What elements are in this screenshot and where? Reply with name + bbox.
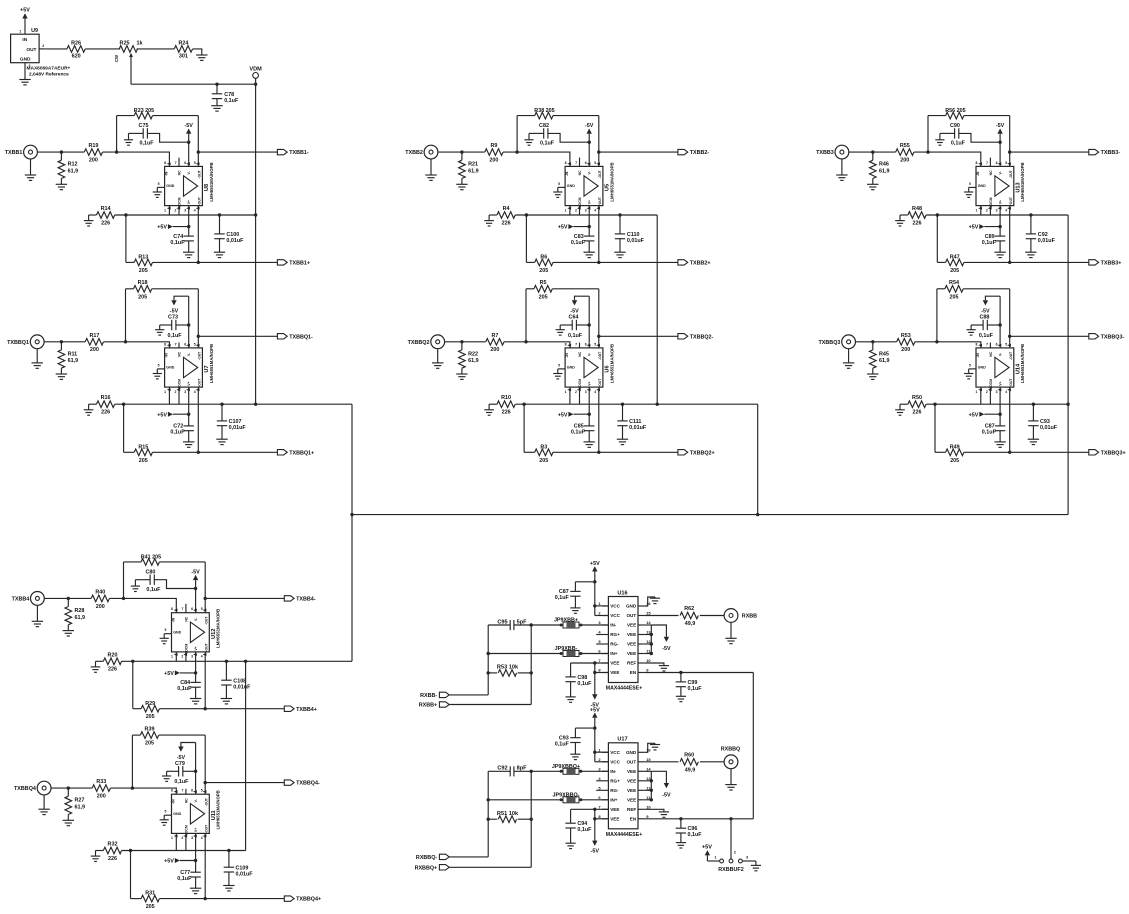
svg-text:VEE: VEE [627, 651, 636, 656]
svg-text:C90: C90 [950, 123, 960, 129]
capacitor C99 0,1uF at EN [676, 673, 703, 697]
node C110 tap [618, 213, 621, 216]
jumper JP9XBBQ- [553, 792, 609, 802]
capacitor C92 8pF series [488, 766, 561, 777]
svg-text:TXBB3-: TXBB3- [1101, 150, 1121, 156]
svg-text:5: 5 [201, 789, 203, 793]
svg-text:6: 6 [996, 161, 998, 165]
node VEE net of U17 [593, 808, 596, 811]
svg-text:GND: GND [626, 604, 637, 609]
svg-text:+5V: +5V [590, 561, 600, 567]
resistor R14 226 gain [89, 206, 115, 226]
svg-text:IN-: IN- [610, 623, 617, 628]
wire EN line of U17 [645, 818, 754, 820]
svg-text:R23 205: R23 205 [134, 108, 154, 114]
svg-text:R6: R6 [540, 255, 547, 261]
capacitor C90 0,1uF [940, 123, 1000, 147]
node +5V junction [187, 225, 190, 228]
svg-text:0,1uF: 0,1uF [982, 430, 997, 436]
svg-text:205: 205 [950, 458, 959, 464]
svg-text:NC: NC [578, 351, 582, 356]
wire V- into amplifier [999, 142, 1001, 166]
svg-text:2: 2 [181, 836, 183, 840]
svg-text:RXBBQ-: RXBBQ- [416, 855, 437, 861]
node C79 to V- [194, 770, 197, 773]
svg-text:0,1uF: 0,1uF [571, 430, 586, 436]
wire to amplifier -IN [110, 598, 177, 612]
wire input to termination node [44, 341, 85, 343]
node R53 right [530, 671, 533, 674]
wire rail A lower [487, 771, 489, 857]
svg-text:-IN: -IN [165, 171, 169, 176]
svg-text:2: 2 [181, 655, 183, 659]
svg-text:TXBBQ3+: TXBBQ3+ [1101, 450, 1126, 456]
svg-text:VDM: VDM [249, 66, 262, 72]
svg-text:0,01uF: 0,01uF [233, 685, 251, 691]
node C108 tap [225, 660, 228, 663]
svg-text:RG+: RG+ [610, 779, 620, 784]
svg-text:5: 5 [194, 161, 196, 165]
resistor R3 205 lower feedback [524, 404, 553, 464]
svg-text:14: 14 [646, 620, 651, 625]
ground under C111 [617, 438, 628, 440]
wire V+ supply [195, 652, 197, 683]
output connector TXBBQ1+ [277, 450, 314, 457]
svg-text:6: 6 [184, 342, 186, 346]
svg-text:-5V: -5V [185, 123, 194, 129]
resistor R53 200 series input [897, 333, 915, 353]
resistor R19 200 series input [84, 143, 102, 163]
node VOCM-feedback junction [522, 403, 525, 406]
ground under C92 [1025, 251, 1036, 253]
node rail A at lower IN+ line [487, 798, 490, 801]
ground at R50 [895, 409, 905, 411]
input connector J-TXBBQ3 [819, 335, 856, 349]
svg-text:GND: GND [173, 631, 181, 635]
svg-text:-IN: -IN [172, 799, 176, 804]
wire VEE pin8 and -5V flag of U16 [591, 663, 609, 708]
svg-text:R21: R21 [468, 162, 478, 168]
ground under C107 [216, 438, 227, 440]
resistor R33 200 series input [92, 779, 110, 799]
wire output TXBBQ1- line [198, 335, 277, 337]
svg-text:5: 5 [558, 363, 560, 367]
wire VOCM line [115, 403, 352, 405]
svg-text:+5V: +5V [558, 412, 568, 418]
capacitor C100 0,01uF [214, 215, 244, 252]
svg-text:8pF: 8pF [517, 766, 528, 772]
svg-text:0,1uF: 0,1uF [979, 333, 994, 339]
output connector TXBBQ2- [678, 334, 714, 341]
svg-text:0,1uF: 0,1uF [555, 595, 570, 601]
op-amp U12 TXBB4 driver [160, 604, 221, 659]
power -5V flag [981, 296, 1000, 314]
input connector J-TXBBQ1 [7, 335, 44, 349]
svg-text:U16: U16 [617, 590, 627, 596]
svg-text:5: 5 [201, 607, 203, 611]
svg-text:205: 205 [539, 458, 548, 464]
svg-text:IN-: IN- [610, 769, 617, 774]
svg-text:5: 5 [158, 182, 160, 186]
svg-text:RG-: RG- [610, 642, 619, 647]
power -5V flag [185, 123, 194, 142]
svg-text:3: 3 [996, 390, 998, 394]
svg-text:-IN: -IN [172, 617, 176, 622]
wire input to termination node [438, 151, 485, 153]
svg-text:TXBB4+: TXBB4+ [296, 707, 317, 713]
ground under R21 [456, 183, 467, 185]
node R51 right [530, 818, 533, 821]
svg-text:V-: V- [587, 171, 591, 174]
resistor R16 226 gain [89, 395, 115, 415]
svg-text:5: 5 [969, 182, 971, 186]
svg-text:-5V: -5V [570, 309, 579, 315]
svg-text:1: 1 [565, 208, 567, 212]
wire EN to RXBBUF2 [730, 819, 732, 859]
power -5V flag [177, 743, 196, 761]
input connector J-TXBB2 [405, 145, 438, 159]
resistor R56 205 feedback [928, 108, 1010, 166]
wire output TXBBQ3+ line [964, 387, 1089, 452]
output connector TXBB1+ [277, 260, 310, 267]
svg-text:V+: V+ [194, 828, 198, 832]
svg-text:620: 620 [72, 54, 81, 60]
svg-text:8: 8 [976, 161, 978, 165]
svg-text:EN: EN [630, 817, 637, 822]
wire input to termination node [51, 787, 92, 789]
node TXBB3- output [1008, 150, 1011, 153]
svg-text:R15: R15 [138, 444, 148, 450]
svg-text:5: 5 [158, 363, 160, 367]
node VDM at Q1 VOCM [254, 403, 257, 406]
ground under R27 [63, 819, 74, 821]
node VEE net of U16 [593, 661, 596, 664]
svg-text:LMH6551MA/NOPB: LMH6551MA/NOPB [609, 162, 614, 201]
svg-text:0,01uF: 0,01uF [226, 238, 244, 244]
ground at R16 [84, 409, 94, 411]
reference part label [27, 65, 71, 77]
svg-text:226: 226 [913, 410, 922, 416]
resistor R54 205 feedback [937, 280, 1010, 348]
node TXBB4- output [204, 597, 207, 600]
svg-text:GND: GND [567, 366, 575, 370]
svg-text:R17: R17 [89, 333, 99, 339]
ground under TXBBQ3 connector [843, 349, 854, 369]
svg-text:4: 4 [594, 390, 596, 394]
wire output TXBB1+ line [153, 206, 278, 263]
svg-text:V+: V+ [187, 381, 191, 385]
svg-text:8: 8 [164, 161, 166, 165]
svg-text:V+: V+ [998, 381, 1002, 385]
node VCC pin1 of U16 [593, 604, 596, 607]
power +5V for U16 [590, 561, 600, 616]
svg-text:R10: R10 [501, 395, 511, 401]
wire V- into amplifier [588, 142, 590, 166]
resistor R51 10k [488, 811, 531, 823]
svg-text:+5V: +5V [558, 225, 568, 231]
ground under C83 [584, 251, 595, 253]
svg-text:RXBBQ+: RXBBQ+ [415, 865, 438, 871]
svg-text:61,9: 61,9 [468, 358, 479, 364]
wire to amplifier -IN [111, 788, 177, 794]
svg-text:0,01uF: 0,01uF [229, 425, 247, 431]
node rail A at IN+ line [487, 652, 490, 655]
svg-text:R29: R29 [145, 701, 155, 707]
node VDM at Q3 VOCM [1066, 403, 1069, 406]
op-amp U13 TXBB3 driver [964, 158, 1025, 213]
node +5V junction [588, 413, 591, 416]
node series cap right [530, 770, 533, 773]
svg-text:MAX4444ESE+: MAX4444ESE+ [606, 686, 642, 692]
svg-text:R3: R3 [540, 444, 547, 450]
svg-text:R5: R5 [540, 280, 547, 286]
capacitor C110 0,01uF [615, 215, 645, 252]
node TXBB4+ output [204, 707, 207, 710]
svg-text:RXBB-: RXBB- [420, 693, 437, 699]
node input junction [460, 340, 463, 343]
capacitor C108 0,01uF [221, 661, 251, 698]
node feedback tap [524, 340, 527, 343]
wire R25 to R24 [137, 48, 175, 50]
resistor R12 61,9 termination [58, 152, 78, 184]
ground under C72 [183, 441, 194, 443]
svg-text:V-: V- [587, 353, 591, 356]
svg-text:VEE: VEE [610, 661, 619, 666]
svg-text:V-: V- [998, 171, 1002, 174]
node feedback tap [131, 786, 134, 789]
resistor R46 61,9 termination [870, 152, 890, 184]
svg-text:TXBBQ3: TXBBQ3 [819, 340, 841, 346]
input connector J-TXBBQ2 [408, 335, 445, 349]
svg-text:VEE: VEE [627, 798, 636, 803]
jumper JP9XBB+ [554, 618, 608, 628]
wire to RXBB connector [700, 615, 724, 617]
svg-text:TXBB3+: TXBB3+ [1101, 261, 1122, 267]
svg-text:3: 3 [191, 655, 193, 659]
svg-text:RXBBUF2: RXBBUF2 [718, 867, 743, 873]
svg-text:+OUT: +OUT [205, 824, 209, 834]
node input junction [67, 597, 70, 600]
ground under TXBB4 connector [32, 605, 43, 626]
svg-text:LMH6551MA/NOPB: LMH6551MA/NOPB [1020, 162, 1025, 201]
ground under C93 [570, 753, 580, 755]
wire VOCM line [115, 214, 256, 216]
capacitor C107 0,01uF [217, 404, 247, 439]
svg-text:LMH6551MA/NOPB: LMH6551MA/NOPB [216, 790, 221, 829]
svg-text:R22: R22 [468, 351, 478, 357]
resistor R20 226 gain [96, 652, 122, 672]
power +5V arrow [558, 412, 589, 419]
wire OUT of U17 [645, 761, 679, 763]
svg-text:200: 200 [97, 794, 106, 800]
ground under R12 [56, 183, 67, 185]
svg-text:1: 1 [565, 390, 567, 394]
wire to amplifier -IN [504, 342, 570, 348]
ground at R20 [91, 666, 101, 668]
power +5V arrow [157, 224, 188, 231]
node VDM junction [254, 83, 257, 86]
svg-text:205: 205 [139, 268, 148, 274]
op-amp U7 TXBBQ1 driver [153, 342, 214, 394]
svg-text:RXBB+: RXBB+ [419, 703, 437, 709]
wire to RXBBQ connector [700, 761, 724, 763]
node R51 left [487, 818, 490, 821]
wire amplifier lower pins [981, 387, 991, 404]
wire output TXBBQ1+ line [153, 387, 278, 452]
power -5V flag [570, 296, 589, 314]
op-amp U11 TXBBQ4 driver [160, 789, 221, 841]
wire V+ supply [188, 387, 190, 426]
svg-text:5: 5 [558, 182, 560, 186]
svg-text:205: 205 [146, 714, 155, 720]
wire rail A upper [487, 625, 489, 695]
node C111 tap [621, 403, 624, 406]
node C87 tap [593, 580, 596, 583]
node TXBBQ4- output [204, 781, 207, 784]
ground under R22 [456, 373, 467, 375]
wire V+ supply [999, 206, 1001, 237]
svg-text:V-: V- [194, 618, 198, 621]
output connector TXBB4+ [284, 706, 317, 713]
wire VDM drop column3 [1067, 215, 1069, 515]
ground under C64 [556, 329, 565, 331]
resistor R28 61,9 termination [65, 598, 85, 630]
svg-text:7: 7 [175, 161, 177, 165]
svg-text:0,1uF: 0,1uF [174, 779, 189, 785]
output connector RXBBQ [721, 747, 740, 769]
ground under C94 [566, 842, 576, 844]
ground under TXBBQ2 connector [432, 349, 443, 369]
svg-text:R54: R54 [949, 280, 959, 286]
wire VEE pin8 and -5V flag of U17 [591, 809, 609, 854]
svg-text:61,9: 61,9 [879, 358, 890, 364]
svg-text:61,9: 61,9 [75, 615, 86, 621]
svg-text:R25: R25 [120, 40, 130, 46]
power +5V arrow [157, 412, 188, 419]
wire VCC pins of U16 [595, 606, 609, 616]
ground under C108 [221, 698, 232, 700]
svg-text:8: 8 [164, 342, 166, 346]
svg-text:7: 7 [575, 161, 577, 165]
node feedback tap [935, 340, 938, 343]
ground at REF pin of U16 [645, 663, 669, 671]
ground under C75 [124, 139, 133, 141]
node TXBBQ1+ output [197, 451, 200, 454]
wire EN line of U16 [645, 672, 754, 674]
op-amp U8 TXBB1 driver [153, 158, 214, 213]
ground at R32 [91, 855, 101, 857]
ground under C90 [935, 139, 944, 141]
svg-text:205: 205 [950, 268, 959, 274]
svg-text:61,9: 61,9 [68, 169, 79, 175]
svg-text:16: 16 [646, 747, 651, 752]
ground under TXBBQ1 connector [32, 349, 43, 369]
wire JP9XBB- to rail [488, 653, 561, 655]
svg-text:+OUT: +OUT [598, 196, 602, 206]
node TXBB3+ output [1008, 261, 1011, 264]
node C78 tap [215, 83, 218, 86]
wire amplifier lower pins [570, 387, 580, 404]
wire V+ supply [588, 387, 590, 426]
ground under TXBB3 connector [836, 159, 847, 180]
capacitor C79 0,1uF [167, 761, 196, 785]
resistor R39 205 feedback [132, 726, 205, 794]
svg-text:VEE: VEE [610, 817, 619, 822]
node C107 tap [220, 403, 223, 406]
svg-text:-OUT: -OUT [598, 351, 602, 360]
ground under RXBB [725, 622, 736, 643]
svg-text:5: 5 [969, 363, 971, 367]
wire RXBB- input [420, 692, 488, 699]
svg-text:4: 4 [1005, 390, 1007, 394]
svg-text:10: 10 [646, 804, 651, 809]
svg-text:0,1uF: 0,1uF [177, 876, 192, 882]
svg-text:TXBBQ2-: TXBBQ2- [690, 334, 714, 340]
resistor R41 205 feedback [124, 554, 206, 612]
output connector TXBBQ4- [284, 780, 320, 787]
output connector TXBBQ1- [277, 334, 313, 341]
svg-text:TXBBQ4+: TXBBQ4+ [296, 897, 321, 903]
svg-text:OUT: OUT [626, 760, 636, 765]
resistor R10 226 gain [489, 395, 515, 415]
svg-text:RXBBQ: RXBBQ [721, 747, 740, 753]
wire output TXBB2+ line [553, 206, 678, 263]
svg-text:200: 200 [89, 158, 98, 164]
svg-text:LMH6551MA/NOPB: LMH6551MA/NOPB [609, 344, 614, 383]
capacitor C78 0,1uF [212, 84, 239, 106]
wire output TXBBQ2+ line [553, 387, 678, 452]
wire V+ supply [195, 833, 197, 872]
svg-text:JP9XBBQ-: JP9XBBQ- [553, 792, 580, 798]
svg-text:200: 200 [900, 158, 909, 164]
svg-text:RG-: RG- [610, 788, 619, 793]
svg-text:226: 226 [108, 667, 117, 673]
wire amplifier lower pins [169, 206, 179, 215]
node V- supply [998, 141, 1001, 144]
svg-text:0,1uF: 0,1uF [982, 240, 997, 246]
resistor R50 226 gain [900, 395, 926, 415]
svg-text:200: 200 [490, 347, 499, 353]
node C100 tap [218, 213, 221, 216]
svg-text:V+: V+ [187, 200, 191, 204]
ground under C110 [614, 251, 625, 253]
svg-text:61,9: 61,9 [468, 169, 479, 175]
svg-text:0,01uF: 0,01uF [1038, 238, 1056, 244]
svg-text:200: 200 [489, 158, 498, 164]
svg-text:C92: C92 [497, 766, 507, 772]
ground under C87 [570, 607, 580, 609]
ground under C82 [524, 139, 533, 141]
svg-text:IN+: IN+ [610, 798, 618, 803]
ground under C85 [584, 441, 595, 443]
node VDM at Q2 VOCM [656, 403, 659, 406]
svg-text:GND: GND [166, 366, 174, 370]
output connector TXBB2- [678, 149, 709, 156]
svg-text:4: 4 [201, 655, 203, 659]
op-amp U14 TXBBQ3 driver [964, 342, 1025, 394]
resistor R4 226 gain [489, 206, 515, 226]
svg-text:TXBBQ2+: TXBBQ2+ [690, 450, 715, 456]
svg-text:0,1uF: 0,1uF [170, 430, 185, 436]
node VDM bus mid junction [756, 513, 759, 516]
resistor R26 620 [67, 40, 85, 59]
svg-text:-OUT: -OUT [198, 351, 202, 360]
svg-text:+OUT: +OUT [198, 196, 202, 206]
svg-text:R11: R11 [68, 351, 78, 357]
resistor R21 61,9 termination [459, 152, 479, 184]
ground under C80 [131, 585, 140, 587]
capacitor C73 0,1uF [160, 315, 189, 339]
